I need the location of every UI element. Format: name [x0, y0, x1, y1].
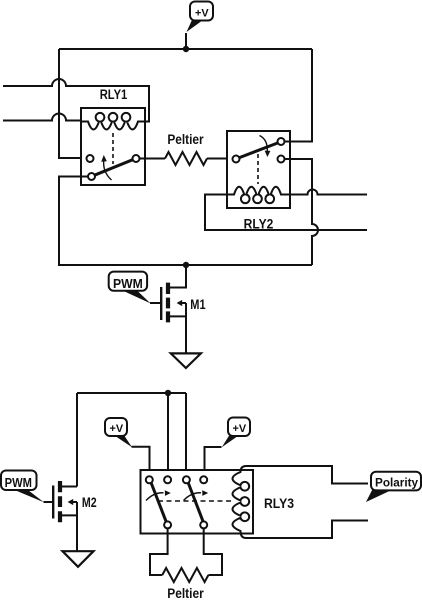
RLY3 arrow 2: [184, 493, 202, 501]
junction dot lower rail: [165, 390, 171, 396]
+V label (RLY3 right): [222, 418, 250, 448]
M2 channel bars: [58, 481, 62, 522]
RLY3 arrow 1: [146, 493, 164, 501]
svg-text:PWM: PWM: [113, 276, 143, 291]
RLY2 contact bottom: [278, 156, 285, 163]
RLY3 coil (vertical): [233, 466, 250, 538]
RLY2 contact pole: [233, 156, 240, 163]
RLY3 contact 1: [146, 476, 153, 483]
RLY1 contact NC: [87, 155, 94, 162]
RLY2 linkage dashed line: [257, 154, 259, 184]
wire rail to RLY3 contact 3: [185, 393, 187, 476]
RLY3 blade 2: [188, 483, 203, 521]
M2 gate bar: [52, 486, 54, 519]
RLY1 contact NO: [88, 173, 95, 180]
resistor Peltier (upper): [165, 132, 207, 165]
RLY1 blade: [95, 160, 133, 176]
resistor Peltier (lower): [162, 568, 208, 600]
junction dot top rail: [183, 46, 189, 52]
wire RLY3 coil bottom stub: [246, 521, 368, 539]
RLY2 blade: [239, 143, 277, 158]
wire RLY3 coil top stub: [246, 466, 368, 484]
wire left stub 2 (hops over vertical): [3, 114, 81, 122]
svg-text:Peltier: Peltier: [167, 586, 204, 600]
M2 source wire: [62, 502, 77, 551]
RLY3 pole 2: [200, 521, 207, 528]
svg-text:RLY3: RLY3: [264, 496, 294, 511]
wire top rail: [59, 48, 312, 50]
PWM label (M1 gate): [109, 272, 151, 304]
svg-text:M1: M1: [190, 297, 206, 312]
relay RLY1: [81, 87, 145, 185]
M2 gate lead: [44, 501, 53, 503]
RLY3 linkage dashed line: [158, 500, 231, 502]
RLY1 contact pole: [133, 155, 140, 162]
RLY2 coil: [227, 187, 290, 203]
RLY2 actuation arrow: [260, 136, 268, 153]
svg-text:M2: M2: [82, 495, 97, 510]
wire RLY2 top contact to top rail: [285, 49, 313, 142]
M1 gate bar: [160, 287, 162, 320]
MOSFET M2: [44, 481, 97, 551]
MOSFET M1: [150, 265, 206, 353]
wire rail to RLY3 contact 2: [167, 393, 169, 476]
wire RLY3 pole 2 to Peltier: [204, 528, 222, 575]
svg-text:Peltier: Peltier: [167, 132, 204, 147]
svg-text:RLY1: RLY1: [100, 87, 128, 102]
svg-text:+V: +V: [195, 7, 209, 19]
svg-text:+V: +V: [233, 423, 247, 435]
wire left stub 1 (hops over vertical): [3, 79, 149, 122]
Polarity label: [366, 472, 421, 502]
wire RLY3 pole 1 to Peltier: [150, 528, 168, 575]
wire RLY2 coil right stub (hops over vertical): [290, 190, 367, 195]
+V label (RLY3 left): [105, 418, 132, 447]
wire +V left to RLY3 contact 1: [132, 447, 150, 477]
RLY3 contact 3: [183, 476, 190, 483]
M1 gate lead: [150, 302, 160, 304]
wire RLY1 pole to Peltier: [140, 158, 166, 160]
M1 body arrow: [182, 302, 186, 304]
M1 drain wire: [170, 265, 186, 288]
M2 drain wire: [62, 486, 77, 488]
ground (M2 source): [63, 551, 94, 567]
RLY3 contact 2: [164, 476, 171, 483]
RLY1 linkage dashed line: [112, 133, 114, 164]
wire +V right to RLY3 contact 4: [205, 447, 222, 476]
RLY3 blade 1: [151, 483, 166, 521]
wire M2 drain vertical: [76, 393, 78, 487]
RLY1 coil: [81, 113, 145, 130]
wire lower top rail: [77, 392, 186, 394]
RLY3 contact 4: [200, 476, 207, 483]
RLY3 pole 1: [164, 521, 171, 528]
wire RLY2 coil left loop: [205, 195, 367, 231]
svg-text:Polarity: Polarity: [375, 476, 418, 490]
relay RLY2: [227, 131, 290, 232]
wire +V lead: [185, 33, 187, 49]
M2 body arrow: [73, 501, 77, 503]
wire RLY2 bottom contact down (hops over horizontal): [285, 159, 319, 265]
wire Peltier to RLY2 pole: [207, 158, 233, 160]
RLY2 contact top: [278, 138, 285, 145]
ground (M1 source): [171, 353, 201, 368]
wire bottom rail upper circuit: [59, 177, 312, 266]
+V supply label (top): [187, 2, 214, 33]
wire left vertical to RLY1 pole: [59, 49, 87, 158]
PWM label (M2 gate): [1, 471, 44, 503]
RLY1 actuation arrow: [104, 160, 112, 180]
svg-text:+V: +V: [110, 423, 124, 435]
svg-text:PWM: PWM: [5, 475, 32, 490]
M1 source wire: [170, 303, 186, 353]
relay RLY3: [141, 466, 295, 538]
M1 channel bars: [166, 283, 170, 323]
junction dot bottom rail: [183, 262, 189, 268]
